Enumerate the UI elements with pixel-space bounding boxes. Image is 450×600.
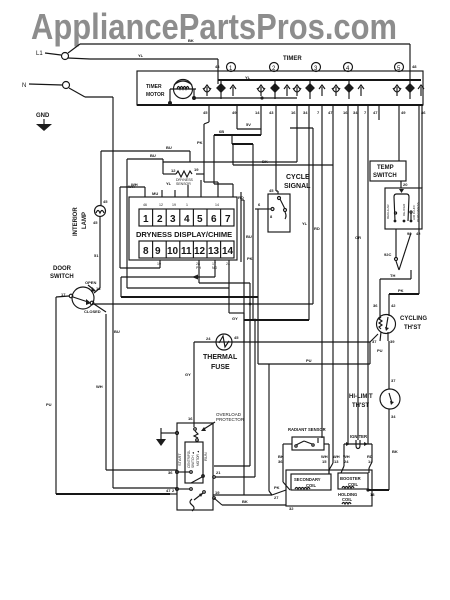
svg-text:12: 12	[159, 203, 163, 207]
svg-text:RADIANT SENSOR: RADIANT SENSOR	[288, 427, 326, 432]
svg-text:42: 42	[391, 303, 396, 308]
svg-text:7: 7	[364, 110, 367, 115]
wire door switch to motor WH	[94, 304, 177, 470]
timer pin 7b	[364, 105, 368, 444]
svg-text:FUSE: FUSE	[211, 364, 230, 371]
svg-text:15: 15	[322, 459, 327, 464]
svg-text:18: 18	[370, 492, 375, 497]
wire hi-limit down BK	[389, 409, 398, 490]
wire timer 43 to cycle signal	[276, 191, 278, 194]
svg-text:12: 12	[171, 168, 176, 173]
svg-text:16: 16	[343, 110, 348, 115]
svg-text:OPEN: OPEN	[85, 280, 96, 285]
svg-text:1: 1	[186, 203, 188, 207]
svg-text:GND: GND	[36, 113, 50, 119]
svg-text:WH: WH	[96, 384, 103, 389]
svg-text:DRYNESS DISPLAY/CHIME: DRYNESS DISPLAY/CHIME	[136, 230, 232, 239]
wire radiant sensor left BK	[278, 444, 292, 490]
svg-text:PERM PRESS: PERM PRESS	[416, 202, 420, 222]
booster coil L2	[338, 473, 368, 489]
svg-text:27: 27	[274, 495, 279, 500]
svg-text:YL: YL	[166, 181, 172, 186]
wire igniter to booster	[341, 444, 372, 473]
motor internal switches	[168, 442, 208, 511]
svg-text:19: 19	[172, 203, 176, 207]
svg-text:BK: BK	[392, 449, 398, 454]
svg-text:1: 1	[143, 214, 149, 225]
svg-text:43: 43	[269, 110, 274, 115]
svg-text:13: 13	[208, 246, 220, 257]
holding coil L3	[338, 492, 357, 504]
wire below display thick	[121, 296, 258, 298]
wire display pin28 loop	[199, 260, 250, 466]
svg-text:5V: 5V	[246, 122, 251, 127]
svg-text:PU: PU	[377, 348, 383, 353]
svg-text:CLOSED: CLOSED	[84, 309, 101, 314]
svg-text:TH'ST: TH'ST	[352, 403, 369, 409]
wire bus junction thick	[244, 319, 309, 322]
svg-text:THERMAL: THERMAL	[203, 354, 238, 361]
svg-text:16: 16	[188, 416, 193, 421]
svg-text:GY: GY	[185, 372, 191, 377]
overload protector	[194, 412, 245, 441]
wire thermal fuse right to cycling	[232, 334, 378, 342]
svg-text:IGNITER: IGNITER	[350, 434, 367, 439]
svg-text:36: 36	[168, 470, 173, 475]
display bottom pin labels	[157, 262, 230, 270]
timer pin 14	[255, 105, 261, 129]
svg-text:45: 45	[269, 188, 274, 193]
igniter E1	[344, 434, 372, 449]
wire PK cycling to riser	[389, 288, 419, 303]
wire PU holding coil feed	[258, 342, 370, 495]
motor ground	[156, 428, 179, 446]
svg-text:34: 34	[391, 414, 396, 419]
wire booster to hi-limit riser	[289, 488, 389, 511]
svg-text:49: 49	[401, 110, 406, 115]
svg-text:19: 19	[194, 167, 199, 172]
wire display pin17 arrow	[121, 260, 215, 297]
wire YL door riser	[290, 128, 313, 304]
timer pin 49	[232, 105, 237, 129]
temp switch selector wires	[380, 229, 421, 303]
wire PU gray to motor	[56, 488, 177, 494]
door switch S2	[50, 266, 101, 314]
wire N down left side	[69, 88, 177, 488]
timer cam switch 5	[393, 83, 424, 99]
svg-text:HI-LIMIT: HI-LIMIT	[349, 394, 373, 400]
svg-text:BU: BU	[114, 329, 120, 334]
svg-text:COIL: COIL	[342, 497, 352, 502]
svg-text:N: N	[22, 83, 26, 89]
cycle signal S1	[255, 174, 311, 364]
svg-text:PROTECTOR: PROTECTOR	[216, 417, 245, 422]
svg-text:START: START	[177, 453, 182, 466]
svg-text:10: 10	[167, 246, 179, 257]
timer terminal 4	[344, 63, 353, 73]
wire timer to temp mech right	[421, 105, 423, 188]
svg-text:BK: BK	[262, 159, 268, 164]
svg-text:REGULAR: REGULAR	[386, 204, 390, 219]
timer pin 34	[303, 105, 309, 320]
svg-text:47: 47	[328, 110, 333, 115]
svg-text:5: 5	[197, 214, 203, 225]
timer pin 16	[291, 105, 297, 162]
svg-text:AppliancePartsPros.com: AppliancePartsPros.com	[31, 6, 397, 47]
display top pin stubs	[128, 180, 201, 197]
timer pin 49b	[399, 105, 406, 161]
svg-text:TH'ST: TH'ST	[404, 325, 421, 331]
svg-text:45: 45	[203, 110, 208, 115]
svg-text:7: 7	[225, 214, 231, 225]
svg-text:6B: 6B	[219, 129, 224, 134]
svg-text:36: 36	[278, 459, 283, 464]
svg-text:DE-ICER: DE-ICER	[402, 203, 406, 216]
timer terminal 1	[227, 63, 236, 73]
svg-text:SWITCH ▲: SWITCH ▲	[191, 451, 195, 468]
svg-text:2: 2	[157, 214, 163, 225]
svg-text:14: 14	[255, 110, 260, 115]
wire display left loop	[120, 187, 160, 268]
timer cam switch 4	[332, 80, 364, 99]
svg-text:CYCLE: CYCLE	[286, 174, 310, 181]
svg-text:34: 34	[353, 110, 358, 115]
svg-text:PK: PK	[398, 288, 404, 293]
timer cam switch 3	[293, 80, 325, 99]
wire door switch row to risers	[94, 303, 313, 306]
display top pin labels	[143, 203, 219, 207]
wire YL timer bus	[218, 75, 421, 80]
timer pin 16b	[343, 105, 348, 444]
dryness sensor R1	[166, 167, 199, 186]
timer pin 46	[419, 105, 426, 294]
svg-text:PU: PU	[46, 402, 52, 407]
timer terminal 2	[270, 63, 279, 73]
svg-text:BK: BK	[242, 499, 248, 504]
wire thermal fuse left to motor	[185, 342, 216, 423]
svg-text:TEMP: TEMP	[377, 165, 394, 171]
svg-text:18: 18	[96, 286, 101, 291]
svg-text:SWITCH: SWITCH	[373, 173, 397, 179]
svg-text:16: 16	[291, 110, 296, 115]
motor terminal 21	[213, 320, 255, 478]
svg-text:BU: BU	[246, 234, 252, 239]
wire WH13 to secondary coil	[329, 165, 333, 474]
drive motor box	[177, 423, 213, 510]
wire BU lamp feed	[101, 145, 190, 162]
ground top-left	[36, 113, 52, 131]
svg-text:8: 8	[270, 214, 273, 219]
svg-text:CYCLING: CYCLING	[400, 316, 427, 322]
svg-text:12: 12	[194, 246, 206, 257]
svg-text:92C: 92C	[384, 252, 391, 257]
radiant sensor	[288, 427, 326, 450]
timer pin 34b	[353, 105, 358, 440]
wire timer 45 to dryness sensor	[196, 122, 218, 197]
timer box	[137, 56, 423, 105]
timer cam switch 2	[257, 80, 290, 99]
svg-text:LAMP: LAMP	[82, 212, 88, 229]
dryness display/chime U1	[129, 197, 237, 260]
svg-text:14: 14	[222, 246, 234, 257]
svg-text:11: 11	[181, 246, 192, 257]
igniter pin labels	[333, 454, 373, 464]
wire display pin24 to thermal fuse	[229, 260, 244, 342]
timer pin 7	[317, 105, 322, 438]
wire BK L1 to timer	[68, 38, 410, 84]
svg-text:8: 8	[143, 246, 149, 257]
svg-text:24: 24	[344, 459, 349, 464]
svg-text:GY: GY	[232, 316, 238, 321]
hi-limit thermostat TH2	[349, 389, 400, 419]
svg-text:YL: YL	[302, 221, 308, 226]
svg-text:4: 4	[184, 214, 190, 225]
svg-text:39: 39	[390, 339, 395, 344]
svg-text:DOOR: DOOR	[53, 266, 72, 272]
svg-text:SWITCH: SWITCH	[50, 274, 74, 280]
svg-text:BK: BK	[188, 38, 194, 43]
wire timer 16 across	[131, 162, 297, 187]
temp switch mechanism	[385, 188, 422, 229]
wire 5V loop	[214, 122, 261, 320]
timer cam switch 1	[203, 80, 236, 99]
svg-text:42: 42	[416, 231, 421, 236]
svg-text:OR: OR	[355, 235, 361, 240]
svg-text:BOOSTER: BOOSTER	[340, 476, 361, 481]
svg-text:6: 6	[258, 202, 261, 207]
timer terminal 5	[395, 63, 404, 73]
svg-text:RD: RD	[314, 226, 320, 231]
svg-text:45: 45	[93, 220, 98, 225]
svg-text:49: 49	[232, 110, 237, 115]
wire display right side	[241, 192, 252, 262]
svg-text:PK: PK	[274, 485, 280, 490]
cycling thermostat TH1	[372, 303, 427, 353]
svg-text:48: 48	[412, 64, 417, 69]
timer pin 45	[203, 105, 209, 122]
svg-text:37: 37	[391, 378, 396, 383]
svg-text:21: 21	[216, 470, 221, 475]
svg-text:47: 47	[166, 488, 171, 493]
timer pin 43	[269, 105, 276, 191]
svg-text:34: 34	[303, 110, 308, 115]
svg-text:7: 7	[317, 110, 320, 115]
svg-text:MU: MU	[152, 191, 158, 196]
temp switch S3	[370, 161, 408, 188]
svg-text:SIGNAL: SIGNAL	[284, 183, 311, 190]
svg-text:9: 9	[155, 246, 161, 257]
timer terminal 3	[312, 63, 321, 73]
svg-text:6: 6	[211, 214, 217, 225]
interior lamp DS1	[73, 151, 108, 293]
svg-text:AIR FLUFF: AIR FLUFF	[412, 205, 416, 220]
wire PK to holding coil	[213, 195, 286, 500]
svg-text:SENSOR: SENSOR	[176, 182, 191, 186]
timer motor M1	[146, 80, 196, 99]
wire BK across to WH13	[233, 144, 333, 165]
terminal L1	[36, 51, 69, 60]
svg-text:19: 19	[215, 490, 220, 495]
svg-text:TIMER: TIMER	[283, 56, 302, 62]
wire radiant sensor right WH15	[321, 444, 329, 474]
svg-text:45: 45	[234, 335, 239, 340]
wire door switch to PU left riser	[46, 296, 69, 494]
svg-text:36: 36	[373, 303, 378, 308]
wire BU sensor loop	[127, 153, 229, 288]
svg-text:32: 32	[289, 506, 294, 511]
svg-text:L1: L1	[36, 51, 43, 57]
svg-text:PK: PK	[247, 256, 253, 261]
svg-text:BU: BU	[166, 145, 172, 150]
svg-text:BU: BU	[150, 153, 156, 158]
svg-text:20: 20	[403, 182, 408, 187]
timer pin 47	[328, 105, 333, 165]
svg-text:45: 45	[103, 199, 108, 204]
svg-text:14: 14	[215, 203, 219, 207]
svg-text:48: 48	[215, 64, 220, 69]
thermal fuse F1	[203, 334, 239, 371]
svg-text:PK: PK	[197, 140, 203, 145]
svg-text:TH: TH	[390, 273, 395, 278]
svg-text:13: 13	[334, 459, 339, 464]
wire cycling to hi-limit PU	[389, 341, 396, 389]
svg-text:RUN: RUN	[203, 452, 208, 461]
svg-text:47: 47	[373, 110, 378, 115]
svg-text:TIMER: TIMER	[146, 84, 162, 90]
svg-text:98: 98	[407, 231, 412, 236]
svg-text:3: 3	[170, 214, 176, 225]
svg-text:PU: PU	[306, 358, 312, 363]
svg-text:24: 24	[206, 336, 211, 341]
terminal N	[22, 82, 70, 90]
svg-text:2: 2	[172, 488, 175, 493]
svg-text:MOTOR: MOTOR	[146, 92, 165, 98]
svg-text:INTERIOR: INTERIOR	[73, 207, 79, 236]
wire YL L1 to timer	[68, 53, 218, 84]
coil assembly box	[286, 470, 372, 506]
motor terminal 19	[213, 490, 286, 505]
svg-text:51: 51	[94, 253, 99, 258]
svg-text:MOTOR ▲: MOTOR ▲	[196, 450, 200, 466]
svg-text:SECONDARY: SECONDARY	[294, 477, 321, 482]
svg-text:YL: YL	[245, 75, 251, 80]
svg-text:COIL: COIL	[306, 483, 316, 488]
svg-text:YL: YL	[138, 53, 144, 58]
secondary coil L1	[291, 474, 331, 490]
timer pin 47b	[373, 105, 379, 120]
svg-text:46: 46	[143, 203, 147, 207]
wire timer motor bus	[168, 89, 297, 105]
